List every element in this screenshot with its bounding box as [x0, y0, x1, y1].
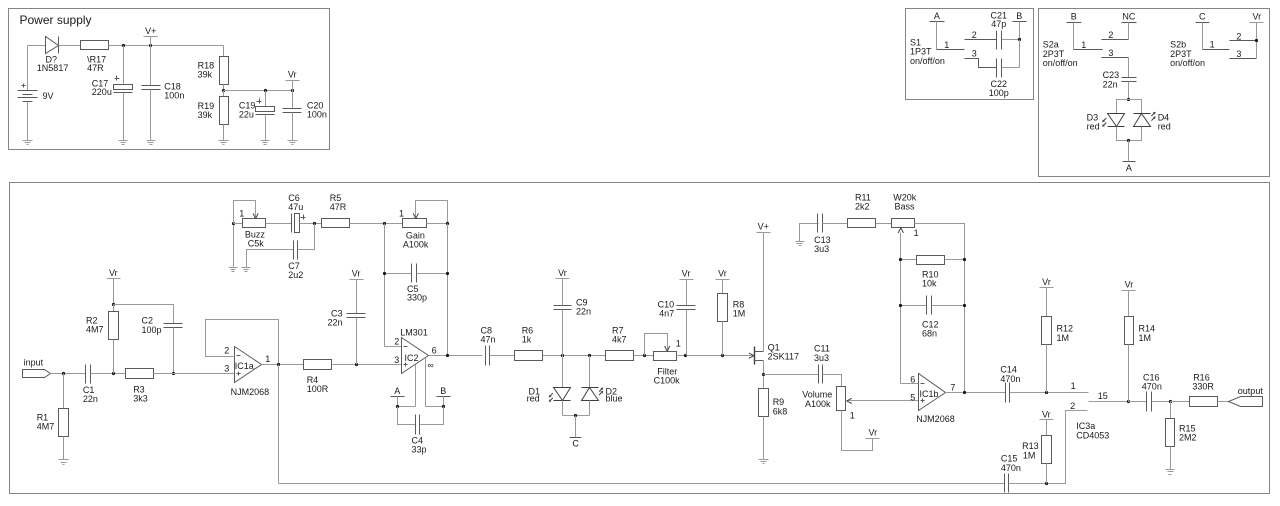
wire IC2 comp pin8	[425, 359, 427, 407]
svg-text:470n: 470n	[1000, 374, 1020, 384]
resistor R10 10k	[901, 256, 965, 289]
net flag NC	[1122, 12, 1137, 40]
svg-text:Vr: Vr	[288, 70, 297, 80]
junction R10 left	[899, 258, 902, 261]
ground at R9	[759, 460, 769, 464]
wire IC2 comp pin1	[415, 365, 417, 407]
svg-text:V+: V+	[145, 26, 156, 36]
svg-text:220u: 220u	[92, 87, 112, 97]
wire R6 to R7	[543, 355, 606, 357]
V+ flag power	[144, 26, 158, 46]
wire A to pin1	[398, 406, 416, 408]
capacitor C20 100n	[283, 91, 327, 141]
svg-text:NC: NC	[1122, 12, 1135, 22]
svg-text:2SK117: 2SK117	[768, 352, 799, 362]
potentiometer Buzz C5k	[234, 201, 266, 249]
svg-text:3: 3	[1236, 49, 1241, 59]
wire C15 to IC3a pin2	[1009, 411, 1088, 484]
switch S2b 2P3T	[1170, 31, 1256, 68]
wire IC1a output	[262, 364, 304, 366]
junction R13	[1045, 482, 1048, 485]
svg-text:A: A	[394, 386, 400, 396]
capacitor C8 47n	[481, 325, 496, 365]
op-amp IC2 LM301	[394, 328, 436, 374]
wire Q1 source down	[763, 361, 765, 389]
S1 box frame	[906, 9, 1034, 100]
LED D1 red	[527, 356, 571, 416]
Vr flag at R2	[107, 268, 121, 304]
svg-text:2: 2	[972, 30, 977, 40]
svg-text:470n: 470n	[1142, 382, 1162, 392]
junction B	[442, 405, 445, 408]
wire R5 to Gain	[350, 223, 403, 225]
resistor R12 1M	[1042, 317, 1074, 393]
Vr flag at R13	[1040, 409, 1054, 435]
wire IC1a out to bottom rail	[278, 365, 280, 484]
svg-text:100p: 100p	[142, 325, 162, 335]
resistor R5 47R	[322, 193, 350, 228]
LED D4 red	[1134, 112, 1171, 132]
svg-text:47R: 47R	[330, 202, 347, 212]
svg-text:22n: 22n	[327, 318, 342, 328]
wire C11 to Volume	[823, 375, 842, 387]
junction LED top	[1127, 98, 1130, 101]
resistor R8 1M	[718, 294, 746, 356]
junction V+	[149, 44, 152, 47]
svg-text:IC2: IC2	[405, 353, 419, 363]
net flag A at C4	[391, 386, 405, 407]
wire input to C1	[51, 373, 86, 375]
capacitor C4 33p	[398, 407, 444, 455]
ground at C19	[261, 141, 270, 145]
svg-text:3: 3	[394, 355, 399, 365]
junction C19	[264, 89, 267, 92]
svg-text:330p: 330p	[407, 293, 427, 303]
potentiometer Bass W20k	[892, 193, 919, 239]
svg-text:1: 1	[399, 209, 404, 219]
resistor R13 1M	[1022, 436, 1051, 484]
svg-text:39k: 39k	[198, 69, 213, 79]
junction Gain right	[446, 222, 449, 225]
capacitor C23 22n	[1103, 58, 1137, 100]
svg-text:Vr: Vr	[352, 269, 361, 279]
capacitor C10 4n7	[658, 300, 696, 356]
Vr flag at C3	[350, 269, 364, 314]
svg-text:22u: 22u	[239, 109, 254, 119]
resistor R17 47R	[81, 41, 109, 74]
svg-text:C: C	[1199, 12, 1206, 22]
svg-text:1M: 1M	[733, 309, 746, 319]
svg-text:2: 2	[1070, 401, 1075, 411]
svg-text:1: 1	[850, 411, 855, 421]
analog switch IC3a CD4053	[1070, 381, 1109, 440]
ground at C20	[288, 141, 298, 145]
svg-text:2M2: 2M2	[1179, 433, 1197, 443]
svg-text:22n: 22n	[83, 394, 98, 404]
svg-text:470n: 470n	[1001, 463, 1021, 473]
svg-text:C100k: C100k	[654, 376, 681, 386]
capacitor C9 22n	[554, 298, 592, 356]
svg-text:Vr: Vr	[109, 268, 118, 278]
svg-text:blue: blue	[606, 394, 623, 404]
wire R11 to Bass	[876, 223, 892, 225]
junction R2 C2 top	[112, 303, 115, 306]
resistor R18 39k	[198, 57, 229, 91]
wire Gain left leg down	[384, 224, 386, 347]
wire R4 to IC2 pin3	[332, 364, 402, 366]
ground at battery	[23, 141, 33, 145]
resistor R15 2M2	[1166, 402, 1197, 470]
svg-text:5: 5	[910, 392, 915, 402]
svg-text:6: 6	[432, 345, 437, 355]
svg-text:1k: 1k	[522, 334, 532, 344]
svg-text:7: 7	[950, 382, 955, 392]
junction Buzz left	[232, 222, 235, 225]
switch S1 1P3T	[910, 30, 997, 68]
ground at R1	[59, 460, 69, 465]
junction R10 right	[963, 258, 966, 261]
junction C2 bottom	[172, 372, 175, 375]
svg-text:6: 6	[910, 375, 915, 385]
wire LED branch top	[1117, 100, 1142, 114]
ground at R19	[219, 141, 229, 145]
svg-text:Vr: Vr	[682, 268, 691, 278]
ground at C13	[796, 224, 819, 246]
power supply box frame	[9, 9, 330, 150]
junction C17	[122, 44, 125, 47]
wire LED bottoms	[563, 415, 590, 417]
junction C9 D1	[561, 354, 564, 357]
svg-text:on/off/on: on/off/on	[1043, 58, 1078, 68]
resistor R7 4k7	[606, 325, 634, 360]
capacitor C12 68n	[901, 296, 965, 339]
svg-text:LM301: LM301	[400, 328, 428, 338]
junction C10	[684, 354, 687, 357]
svg-text:6k8: 6k8	[773, 406, 788, 416]
wire R7 to Filter	[634, 355, 654, 357]
svg-text:100n: 100n	[164, 90, 184, 100]
capacitor C14 470n	[1000, 365, 1020, 403]
capacitor C1 22n	[83, 365, 98, 404]
svg-text:4M7: 4M7	[86, 325, 104, 335]
potentiometer Volume A100k	[802, 387, 855, 421]
svg-text:3u3: 3u3	[814, 244, 829, 254]
svg-text:1: 1	[676, 338, 681, 348]
svg-text:47u: 47u	[288, 202, 303, 212]
svg-text:A100k: A100k	[403, 240, 429, 250]
svg-text:A: A	[934, 11, 940, 21]
svg-text:330R: 330R	[1192, 382, 1214, 392]
junction IC1b out	[963, 391, 966, 394]
op-amp IC1a NJM2068	[224, 345, 270, 397]
svg-text:1: 1	[239, 209, 244, 219]
svg-text:3u3: 3u3	[814, 353, 829, 363]
svg-text:CD4053: CD4053	[1076, 431, 1109, 441]
svg-text:red: red	[1158, 121, 1171, 131]
capacitor C3 22n	[327, 308, 365, 364]
svg-text:Vr: Vr	[1042, 409, 1051, 419]
wire Bass wiper down to IC1b pin6	[901, 233, 919, 384]
svg-text:Vr: Vr	[868, 428, 877, 438]
junction C flag	[574, 414, 577, 417]
svg-text:NJM2068: NJM2068	[231, 387, 270, 397]
resistor R19 39k	[198, 91, 229, 141]
svg-text:Vr: Vr	[1042, 277, 1051, 287]
wire IC1b out to C14	[946, 392, 1006, 394]
resistor R4 100R	[304, 360, 332, 395]
svg-text:22n: 22n	[1103, 79, 1118, 89]
svg-text:NJM2068: NJM2068	[916, 414, 955, 424]
svg-text:on/off/on: on/off/on	[1170, 58, 1205, 68]
wire Gain right leg down	[447, 224, 449, 356]
net flag B at C4	[437, 386, 451, 407]
resistor R9 6k8	[759, 389, 788, 460]
wire IC2 out	[429, 355, 483, 357]
svg-text:1M: 1M	[1139, 333, 1152, 343]
ground at C18	[147, 141, 156, 145]
battery BT 9V	[18, 46, 54, 141]
S2 box frame	[1039, 9, 1270, 177]
capacitor C22 100p	[989, 40, 1020, 98]
capacitor C18 100n	[142, 46, 185, 141]
svg-text:1M: 1M	[1023, 450, 1036, 460]
svg-text:2k2: 2k2	[855, 202, 870, 212]
svg-text:2u2: 2u2	[288, 270, 303, 280]
svg-text:1: 1	[265, 354, 270, 364]
net flag C at S2b	[1196, 12, 1210, 50]
resistor R6 1k	[515, 325, 543, 360]
svg-text:Bass: Bass	[895, 202, 916, 212]
svg-text:10k: 10k	[922, 279, 937, 289]
svg-text:4M7: 4M7	[37, 421, 55, 431]
resistor R1 4M7	[37, 374, 69, 460]
svg-text:33p: 33p	[412, 445, 427, 455]
junction IC2 out	[446, 354, 449, 357]
potentiometer Filter C100k	[645, 334, 681, 386]
junction node X	[313, 222, 316, 225]
wire Filter to Q1 gate	[677, 355, 749, 357]
Vr flag at Volume	[866, 428, 880, 439]
Vr flag at C9	[556, 268, 570, 306]
net flag C at LEDs	[570, 416, 582, 449]
wire B to pin8	[426, 406, 444, 408]
junction Vr divider	[222, 89, 225, 92]
Vr flag at R14	[1122, 279, 1136, 316]
junction Gain left	[383, 222, 386, 225]
wire Bass right down	[915, 224, 965, 393]
capacitor C17 220u	[92, 46, 133, 141]
svg-text:C5k: C5k	[248, 238, 265, 248]
junction R8	[721, 354, 724, 357]
svg-text:4k7: 4k7	[612, 334, 627, 344]
wire R3 to IC1a pin3	[154, 373, 235, 375]
wire Q1 to C11	[764, 374, 819, 376]
svg-text:Power supply: Power supply	[20, 13, 92, 27]
Vr flag at S2b	[1250, 11, 1264, 58]
svg-text:red: red	[1087, 121, 1100, 131]
resistor R14 1M	[1125, 317, 1156, 402]
svg-text:B: B	[1071, 12, 1077, 22]
svg-text:1: 1	[944, 40, 949, 50]
svg-text:3: 3	[224, 364, 229, 374]
svg-text:on/off/on: on/off/on	[910, 56, 945, 66]
svg-text:4n7: 4n7	[659, 309, 674, 319]
capacitor C21 47p	[991, 10, 1020, 49]
svg-text:input: input	[24, 358, 44, 368]
capacitor C16 470n	[1129, 372, 1171, 411]
capacitor C15 470n	[1001, 454, 1021, 493]
svg-text:100p: 100p	[989, 88, 1009, 98]
svg-text:3: 3	[1108, 48, 1113, 58]
capacitor C13 3u3	[814, 214, 831, 255]
capacitor C19 22u	[239, 91, 275, 141]
output connector	[1218, 386, 1264, 407]
junction C3	[355, 363, 358, 366]
input connector	[23, 358, 51, 378]
wire LED branch bottom	[1117, 127, 1142, 141]
net flag B at S2a	[1067, 12, 1082, 50]
capacitor C6 47u	[288, 193, 305, 233]
wire Buzz left to ground	[233, 224, 235, 268]
Vr flag at R8	[716, 268, 730, 293]
resistor R16 330R	[1171, 372, 1218, 406]
svg-text:2: 2	[1236, 31, 1241, 41]
wire divider to C19 C20	[224, 90, 293, 92]
ground at C7	[242, 268, 251, 272]
svg-text:A100k: A100k	[805, 399, 831, 409]
svg-text:1: 1	[1071, 381, 1076, 391]
resistor R11 2k2	[848, 193, 876, 228]
svg-text:1: 1	[914, 228, 919, 238]
svg-text:Vr: Vr	[558, 268, 567, 278]
wire C6 to node X	[300, 223, 322, 225]
junction S2b Vr	[1255, 39, 1258, 42]
LED D3 red	[1087, 113, 1125, 132]
wire Volume bottom to Vr	[842, 411, 873, 451]
junction B C21	[1018, 38, 1021, 41]
LED D2 blue	[582, 356, 623, 416]
junction C5 right	[446, 272, 449, 275]
net flag B at S1	[1013, 11, 1027, 40]
net flag A at S2	[1123, 141, 1136, 174]
capacitor C11 3u3	[814, 344, 830, 384]
junction R1	[62, 372, 65, 375]
svg-text:22n: 22n	[576, 307, 591, 317]
main schematic box frame	[10, 183, 1270, 494]
capacitor C7 2u2	[247, 224, 315, 280]
resistor R2 4M7	[86, 305, 119, 374]
wire IC1a feedback loop	[206, 320, 279, 365]
ground at C17	[119, 141, 128, 145]
junction R15	[1169, 400, 1172, 403]
svg-text:V+: V+	[758, 222, 769, 232]
svg-text:47p: 47p	[991, 19, 1006, 29]
capacitor C5 330p	[385, 264, 448, 303]
potentiometer Gain A100k	[399, 201, 448, 250]
svg-text:100R: 100R	[307, 384, 329, 394]
junction Filter wiper	[643, 354, 646, 357]
svg-text:IC1b: IC1b	[920, 389, 939, 399]
svg-text:output: output	[1238, 386, 1264, 396]
ground at Buzz pot	[229, 268, 238, 272]
junction C20 Vr	[291, 89, 294, 92]
junction C5 left	[383, 272, 386, 275]
diode D? 1N5817	[37, 37, 69, 74]
svg-text:1: 1	[1081, 40, 1086, 50]
svg-text:red: red	[527, 394, 540, 404]
svg-text:B: B	[1016, 11, 1022, 21]
svg-text:1N5817: 1N5817	[37, 63, 69, 73]
wire Buzz to C6	[266, 223, 292, 225]
svg-text:3k3: 3k3	[133, 393, 148, 403]
svg-text:C: C	[572, 439, 579, 449]
wire C1 to R3	[91, 373, 126, 375]
resistor R3 3k3	[126, 369, 154, 404]
junction R14	[1127, 400, 1130, 403]
svg-text:Vr: Vr	[718, 268, 727, 278]
junction C12 left	[899, 304, 902, 307]
wire battery to diode	[28, 45, 46, 47]
ground at R15	[1166, 470, 1175, 475]
svg-text:B: B	[440, 386, 446, 396]
Vr flag at C10	[680, 268, 694, 305]
svg-text:Vr: Vr	[1125, 279, 1134, 289]
svg-text:9V: 9V	[43, 91, 54, 101]
junction D2	[588, 354, 591, 357]
junction LED bottom	[1127, 139, 1130, 142]
wire IC3a pin15	[1089, 401, 1129, 403]
svg-text:2: 2	[394, 337, 399, 347]
wire to IC2 pin2	[385, 346, 402, 348]
wire C14 to IC3a pin1	[1010, 392, 1089, 394]
switch S2a 2P3T	[1043, 30, 1129, 68]
svg-text:2: 2	[1108, 30, 1113, 40]
wire R17 to V+ node	[109, 45, 224, 47]
Vr flag power	[286, 70, 300, 91]
svg-text:39k: 39k	[198, 110, 213, 120]
wire V+ rail to R18	[223, 46, 225, 57]
svg-text:∞: ∞	[428, 360, 434, 370]
svg-text:3: 3	[972, 49, 977, 59]
capacitor C2 100p	[114, 305, 183, 374]
svg-text:47n: 47n	[481, 334, 496, 344]
wire Volume wiper to IC1b pin5	[847, 398, 919, 403]
op-amp IC1b NJM2068	[910, 374, 955, 424]
wire bottom rail	[279, 483, 1005, 485]
junction Q1 source	[762, 373, 765, 376]
junction R2	[112, 372, 115, 375]
wire C8 to R6	[490, 355, 515, 357]
svg-text:68n: 68n	[922, 329, 937, 339]
transistor Q1 2SK117	[749, 343, 799, 365]
junction IC1a out	[277, 363, 280, 366]
svg-text:1M: 1M	[1057, 333, 1070, 343]
svg-text:IC1a: IC1a	[235, 361, 254, 371]
svg-text:1: 1	[1210, 40, 1215, 50]
svg-text:100n: 100n	[307, 109, 327, 119]
wire C13 to R11	[823, 223, 848, 225]
svg-text:15: 15	[1098, 391, 1108, 401]
svg-text:A: A	[1126, 163, 1132, 173]
junction C12 right	[963, 304, 966, 307]
junction A	[396, 405, 399, 408]
net flag A at S1	[930, 11, 945, 50]
junction R12	[1045, 391, 1048, 394]
svg-text:2: 2	[224, 345, 229, 355]
V+ flag at Q1	[757, 222, 771, 352]
svg-text:47R: 47R	[87, 63, 104, 73]
svg-text:Vr: Vr	[1252, 11, 1261, 21]
